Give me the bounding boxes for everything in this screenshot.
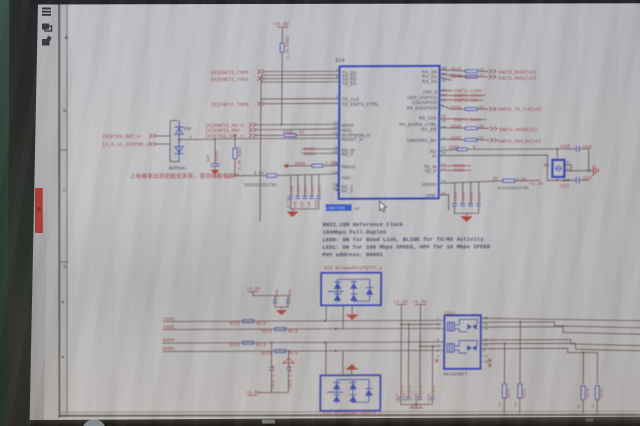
caps C272-C275 [396,323,437,407]
part value selected highlight [326,204,352,211]
resistor R378 [581,386,585,400]
junction MDIO pull-up [281,123,283,125]
wire TXD1 [265,77,340,79]
sheet frame bottom border [57,413,640,417]
screen top dark strip [30,0,640,5]
resistor R377 [518,384,522,398]
wire TXM5 line [163,328,442,329]
wire POR_n [156,143,170,145]
toolbar icon: list/hamburger [42,8,51,16]
wire pin10 to R376 and edge [480,344,504,385]
frame tick marks and row letters [59,149,68,151]
sheet border column fill [56,3,70,418]
ground flag RBIAS [283,164,288,169]
toolbar icon: layers/copy [42,24,52,32]
wire RST_n [156,135,170,137]
capacitor C257 [576,177,579,183]
ground D15 [347,315,358,320]
wire INT_n [256,134,283,136]
D16 pins to lines [325,342,327,375]
resistor R367 INT pull-up [234,135,236,148]
TVS array D16 [320,375,380,411]
wire TXD2 [261,74,340,76]
RXDV row [439,118,486,119]
wire pin11 step [481,339,640,347]
wire XO node [467,148,576,150]
junction dots on lines [324,320,326,322]
VDDIO row ferrite [439,181,503,184]
wire CT pin2 [401,304,441,324]
wire RXP5 line [163,342,442,343]
IC NC x marks [336,184,339,191]
wire RXM5 line [163,350,442,351]
right pin numbers [441,67,447,197]
IC left pin names [341,70,379,193]
resistor R376 [502,384,506,398]
toolbar panel strip [30,2,52,426]
TD11 nc x marks left [435,359,438,362]
VDDIO decoupling caps row C363-C366 [452,182,482,216]
caps C368 C369 [274,296,276,301]
earth symbol crystal [593,165,598,175]
wire pin15 step [481,321,640,329]
TD11 left pin numbers [437,318,440,360]
capacitor C356 [214,139,216,163]
wire TXP5 line [163,320,442,321]
IC left pin numbers [332,69,338,192]
wire XI node [439,155,577,181]
toolbar red bar [35,188,43,233]
wire pin14 step [481,326,640,335]
bottom band small light tab [262,420,275,424]
junction R367 on INT line [234,134,236,136]
RXD1 row: resistor R345 [440,74,466,77]
wire TXD3 [261,81,340,83]
mouse cursor [380,201,387,212]
IC right pin names [399,69,438,198]
junction BAT54A output node [178,138,180,140]
bottom dark bezel band [30,417,640,426]
TD11 winding cells [447,319,477,353]
D16 internal diodes [327,379,373,403]
ferrite bead FB [267,174,277,178]
D15 internal diodes [327,279,373,302]
junction C356 tap [214,138,216,140]
wire TX_CLK vertical drop [259,75,262,221]
caps C370 C371 on RX pair [271,343,273,368]
wire TXEN [264,102,339,104]
TD11 right pin numbers [483,317,489,364]
bottom-left gray blob object [83,420,105,426]
toolbar icon: stamp [42,36,52,46]
D15 pins to lines [325,305,327,321]
ground VDDIO caps [461,216,473,222]
wire pin16 to edge [481,317,640,321]
ground D16 [347,364,358,369]
TD_M / TD_P labels [439,165,471,167]
TD11 left pin stubs [441,320,444,350]
wire TXD0 [265,70,340,72]
wire R377 tap on pin15 line [519,322,521,384]
ground caps row [287,212,299,218]
note text block [322,221,491,259]
toolbar gap strip [44,2,59,426]
diode pair BAT54A V34 [170,121,180,162]
wire CT pin7 [420,304,441,346]
LED0 row [439,90,452,92]
wire R402 pull-up to MDIO [281,30,283,43]
ground C356 [210,170,219,175]
wire MDIO [256,123,339,125]
GND pin row [439,195,449,210]
wire MDC [256,128,339,131]
wire pin9 step to R378 R379 [480,348,583,384]
LED1 row [439,94,485,97]
RXD2 stub [439,77,451,80]
wire RESET to IC [179,138,339,139]
monitor bezel left [0,0,38,426]
resistor R379 [595,386,599,400]
crystal side loop to ground [564,165,593,171]
COL row [439,99,483,102]
sheet frame left border [56,3,62,418]
green desk strip far left [0,0,10,426]
decoupling caps row C358-C362 [287,175,323,212]
resistor R402 [280,43,284,52]
